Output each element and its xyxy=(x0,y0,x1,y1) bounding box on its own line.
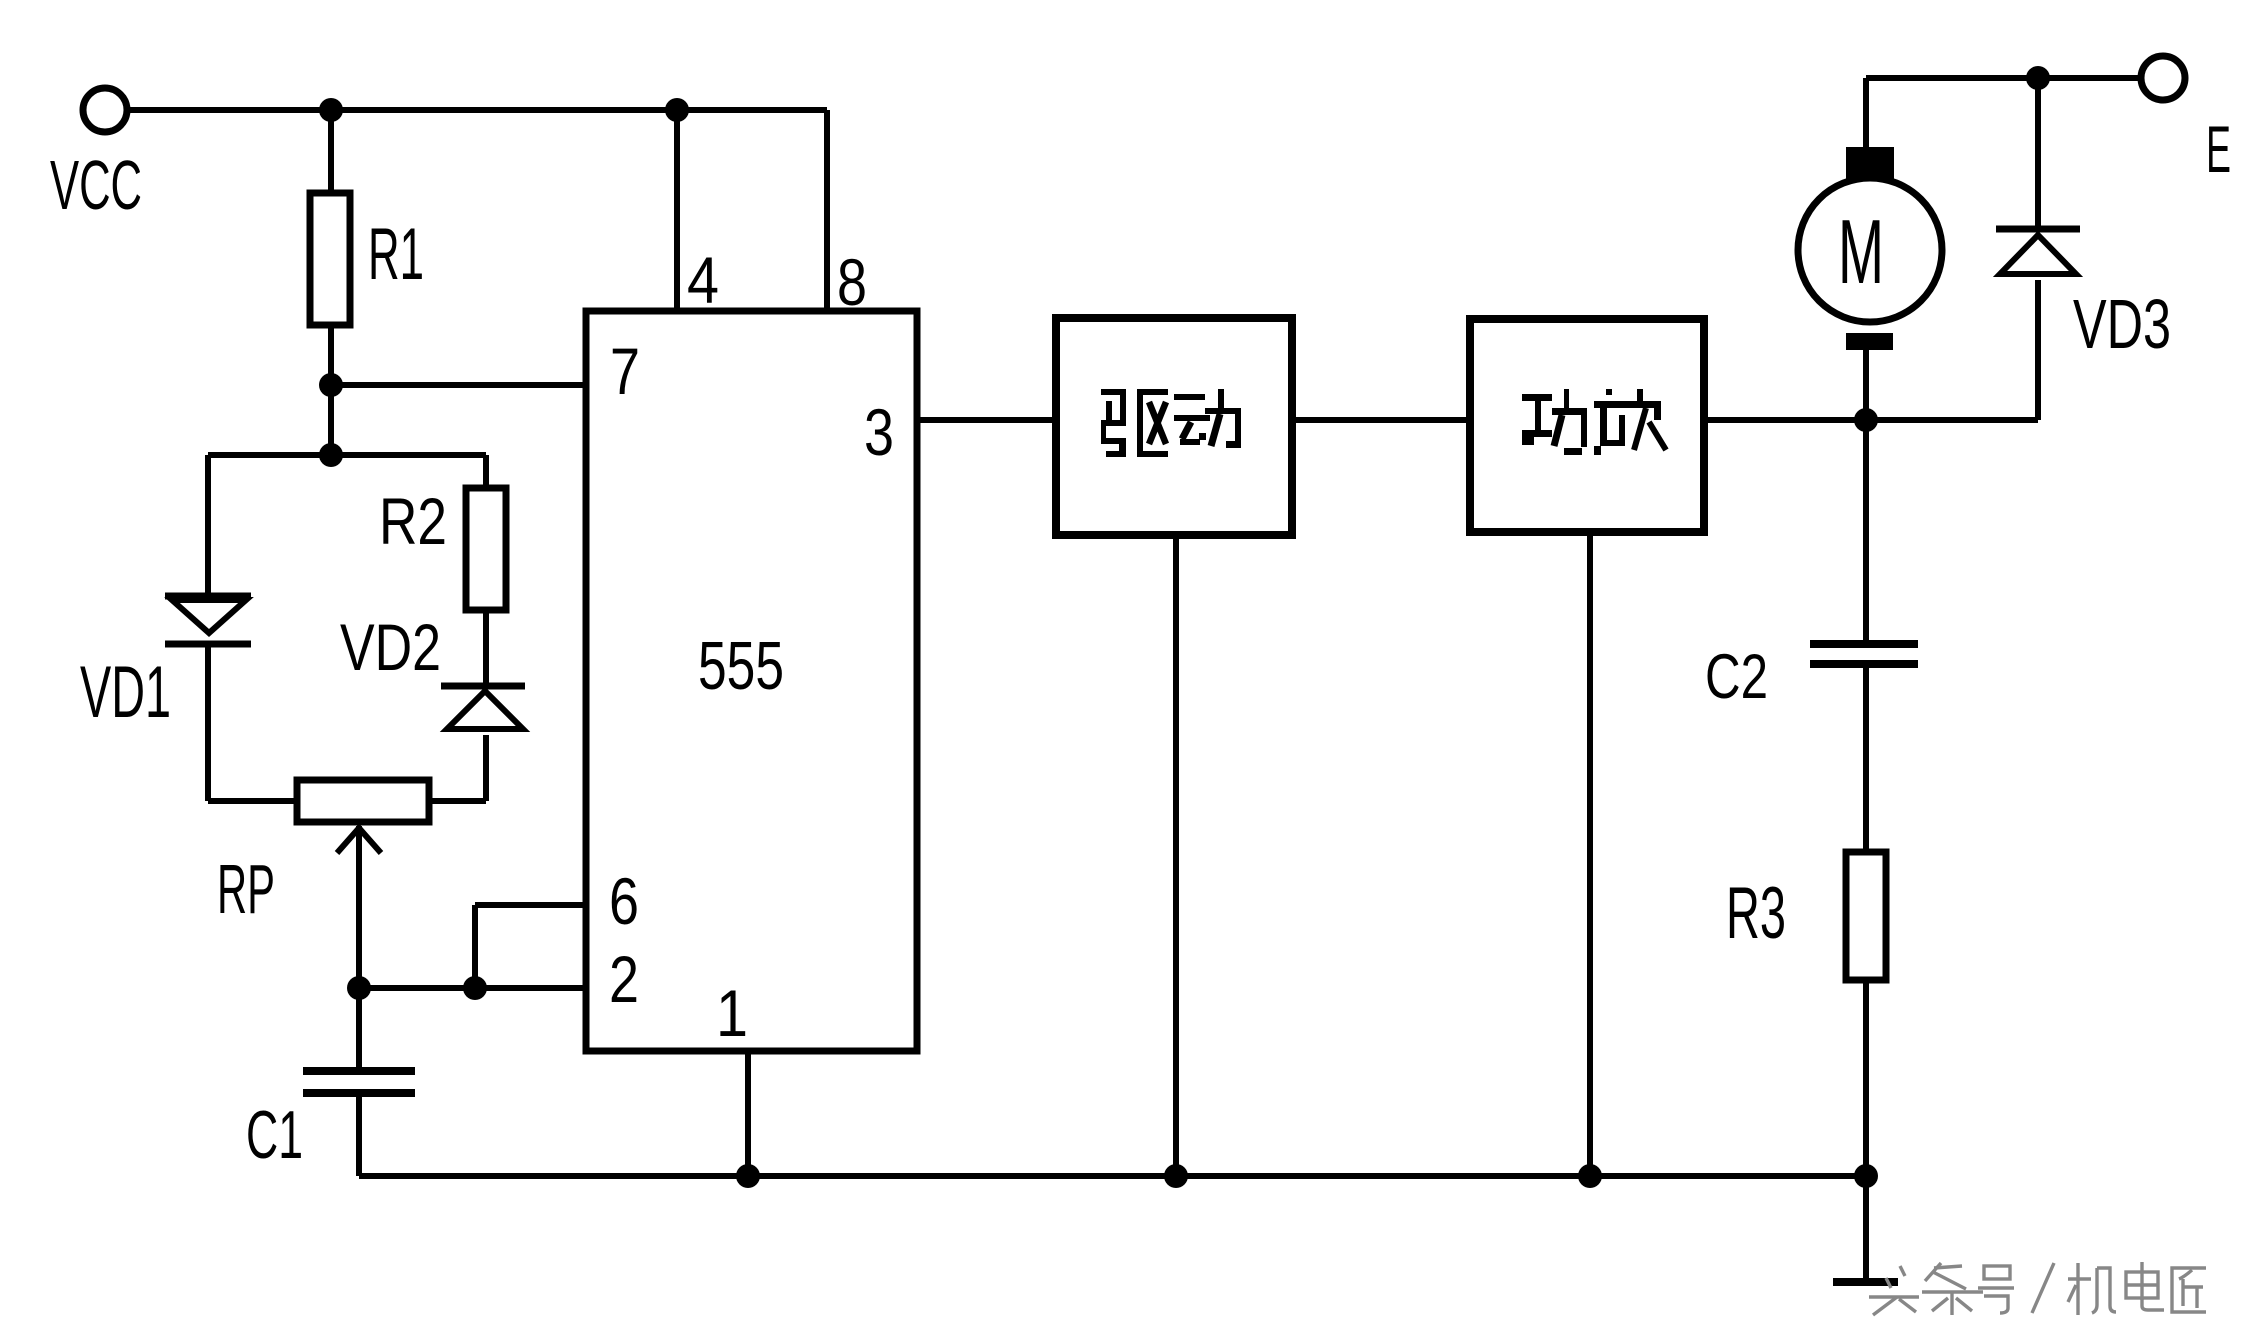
svg-text:RP: RP xyxy=(217,850,275,928)
svg-text:C2: C2 xyxy=(1705,642,1768,712)
svg-text:8: 8 xyxy=(837,245,867,319)
svg-text:2: 2 xyxy=(609,942,639,1016)
svg-text:7: 7 xyxy=(610,334,640,408)
svg-text:R3: R3 xyxy=(1726,873,1786,954)
svg-text:E: E xyxy=(2206,112,2231,186)
svg-text:R1: R1 xyxy=(368,214,424,295)
svg-text:6: 6 xyxy=(609,864,639,938)
svg-text:VD3: VD3 xyxy=(2073,285,2171,363)
svg-text:VD2: VD2 xyxy=(340,610,441,684)
svg-text:4: 4 xyxy=(687,243,719,317)
svg-text:C1: C1 xyxy=(246,1097,303,1173)
svg-text:M: M xyxy=(1838,202,1884,303)
svg-text:555: 555 xyxy=(698,628,784,704)
svg-text:1: 1 xyxy=(716,976,748,1050)
svg-text:VD1: VD1 xyxy=(80,652,171,733)
svg-text:R2: R2 xyxy=(379,484,447,558)
svg-text:3: 3 xyxy=(864,395,894,469)
svg-text:VCC: VCC xyxy=(50,146,142,224)
